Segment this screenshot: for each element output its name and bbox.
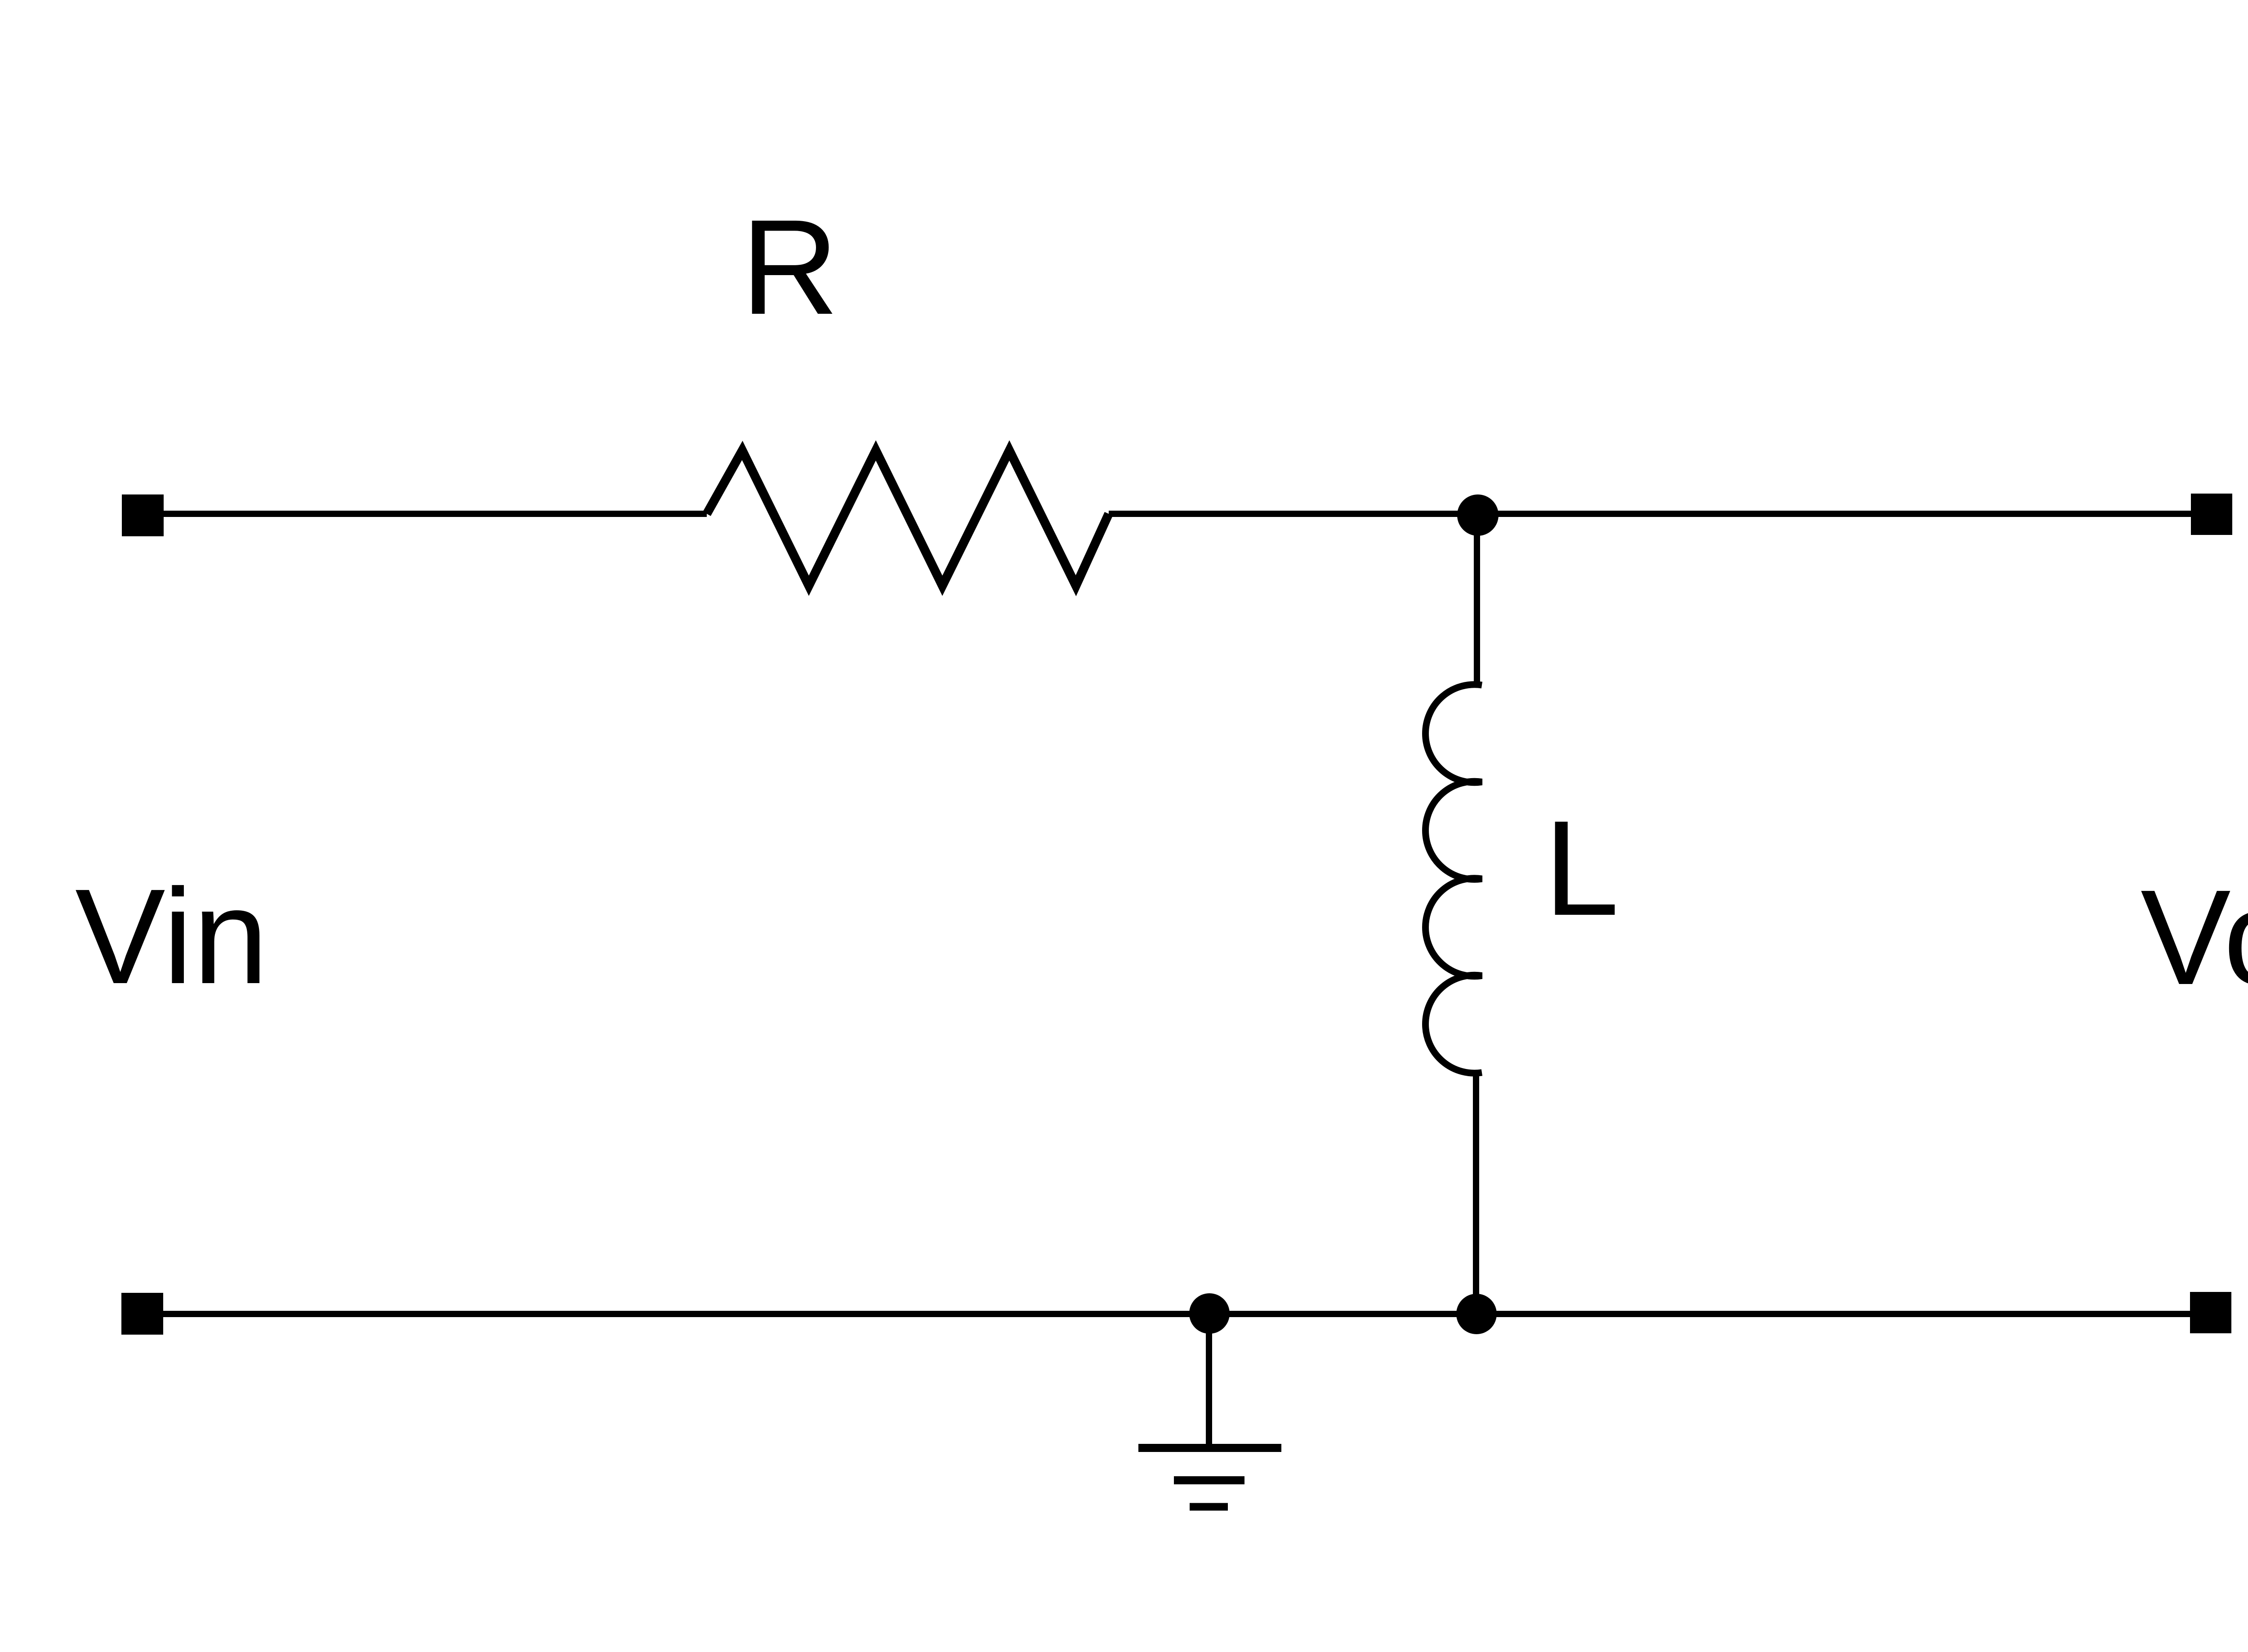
wire top-right (resistor to Vout+) (1109, 511, 2191, 517)
svg-text:L: L (1544, 793, 1619, 944)
inductor L (1426, 685, 1482, 1073)
wire (ground stem) (1206, 1314, 1212, 1444)
wire (inductor down to node B) (1473, 1073, 1479, 1314)
resistor R (707, 450, 1109, 586)
node G (ground junction) (1189, 1293, 1230, 1334)
terminal Vin- (bottom-left square) (121, 1293, 163, 1335)
terminal Vin+ (top-left square) (122, 494, 164, 536)
terminal Vout- (bottom-right square) (2190, 1292, 2231, 1333)
wire top-left (Vin+ to resistor) (163, 511, 707, 517)
svg-text:Vin: Vin (75, 861, 268, 1012)
node A (top junction) (1457, 494, 1499, 536)
node B (inductor bottom junction) (1456, 1294, 1497, 1334)
svg-text:Vout: Vout (2141, 862, 2248, 1013)
ground (1138, 1448, 1281, 1507)
wire (node A down to inductor) (1474, 515, 1480, 688)
svg-text:R: R (741, 191, 839, 343)
wire bottom (Vin- to Vout-) (163, 1311, 2190, 1317)
terminal Vout+ (top-right square) (2191, 494, 2232, 535)
